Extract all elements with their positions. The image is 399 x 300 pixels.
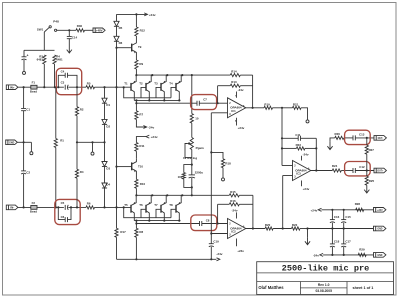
resistor R17 <box>115 207 126 259</box>
transistor T5 <box>124 195 136 220</box>
junction bias line at IN+ line <box>115 86 117 88</box>
junction R23 left <box>281 147 283 149</box>
junction divider mid <box>282 227 284 229</box>
junction C6 loop left <box>57 206 59 208</box>
capacitor C19 <box>209 234 219 260</box>
wire IC3 plus down to divider <box>282 176 284 229</box>
junction T7 collector lower <box>163 220 165 222</box>
capacitor C17 <box>341 229 351 255</box>
svg-text:R13: R13 <box>231 80 237 84</box>
resistor R20 <box>265 223 292 230</box>
svg-text:+: + <box>27 53 29 57</box>
capacitor C13 <box>353 133 374 141</box>
junction R3 to IN+ line <box>43 86 45 88</box>
resistor R16 <box>218 199 253 206</box>
svg-text:C5: C5 <box>61 201 65 205</box>
svg-text:Bead: Bead <box>30 210 37 214</box>
junction IC2 output <box>252 227 254 229</box>
capacitor C20 phantom filter <box>22 50 29 71</box>
wire IC2 plus input <box>211 233 227 235</box>
junction C15 top <box>343 209 345 211</box>
+24v psu rail <box>322 209 374 211</box>
junction diode chain mid <box>103 141 105 143</box>
svg-text:2500-like mic pre: 2500-like mic pre <box>282 263 370 273</box>
svg-text:IC1: IC1 <box>231 109 236 113</box>
junction R23 right <box>315 147 317 149</box>
svg-text:D2: D2 <box>106 124 110 128</box>
wire IC2 output <box>246 228 265 230</box>
junction R8 at rail <box>135 258 137 260</box>
wire collector takeoff upper <box>135 100 137 103</box>
resistor R9 <box>135 60 144 75</box>
-24v arrow tag psu <box>313 253 323 257</box>
svg-text:100: 100 <box>178 175 183 179</box>
junction collector takeoff upper <box>135 99 137 101</box>
capacitor C15 <box>341 210 351 229</box>
+24v arrow tag psu <box>311 208 322 212</box>
junction R19 R21 node <box>281 107 283 109</box>
svg-text:R25: R25 <box>369 179 375 183</box>
capacitor C5 <box>61 201 69 210</box>
svg-text:R6: R6 <box>87 201 91 205</box>
svg-text:C15: C15 <box>345 215 351 219</box>
junction T6 collector lower <box>148 220 150 222</box>
wire IN+ line <box>18 86 64 88</box>
junction 100R loop bottom <box>191 186 193 188</box>
wire R16 to minus node <box>217 204 219 223</box>
junction R4b at IN- line <box>76 206 78 208</box>
terminal bias test point <box>91 152 94 155</box>
junction base bus left upper <box>123 86 125 88</box>
highlight box C12 <box>345 162 371 176</box>
feedback vertical IC1 <box>252 75 254 108</box>
svg-text:R18: R18 <box>225 162 231 166</box>
resistor R15 <box>229 190 253 197</box>
base bus upper <box>124 87 171 97</box>
op-amp IC2 <box>228 208 246 252</box>
junction T9 base <box>115 47 117 49</box>
junction C6 loop right <box>70 206 72 208</box>
collector rail lower <box>134 220 180 222</box>
junction R13 at minus <box>217 102 219 104</box>
junction C4 loop right / R2 top <box>76 86 78 88</box>
svg-text:R2: R2 <box>80 108 84 112</box>
emitter rail lower <box>136 194 229 196</box>
svg-text:D6: D6 <box>119 41 123 45</box>
resistor R4b bias lower <box>75 142 83 207</box>
title block <box>257 262 394 295</box>
svg-text:C3: C3 <box>61 80 65 84</box>
transistor T9 <box>117 36 142 60</box>
capacitor C14 <box>67 30 78 39</box>
tag +24V supply <box>374 208 386 213</box>
wire IC3 minus input <box>282 165 293 167</box>
svg-text:IC3: IC3 <box>296 172 301 176</box>
junction T8 collector lower <box>178 220 180 222</box>
junction R27 top <box>366 137 368 139</box>
phantom bus bar <box>24 49 55 51</box>
svg-text:-24v: -24v <box>238 88 244 92</box>
junction C17 bottom <box>343 254 345 256</box>
junction ground stub <box>306 227 308 229</box>
emitter rail upper <box>136 74 230 76</box>
svg-text:+24v: +24v <box>237 249 244 253</box>
tag +48V <box>93 28 105 33</box>
svg-text:R24: R24 <box>332 164 338 168</box>
transistor T8 <box>169 195 181 220</box>
svg-text:sheet 1 of 1: sheet 1 of 1 <box>353 286 374 290</box>
diode D5 <box>114 14 123 36</box>
junction IC2 plus C19 <box>210 232 212 234</box>
wire IN- line <box>18 206 64 208</box>
svg-text:R15: R15 <box>230 190 236 194</box>
svg-text:R16: R16 <box>230 199 236 203</box>
wire collector takeoff lower <box>135 221 137 224</box>
junction R8 top <box>135 222 137 224</box>
junction T3 emitter <box>166 74 168 76</box>
highlight box C3 C4 <box>56 68 81 94</box>
signal line to C7 <box>136 102 197 104</box>
transistor T6 <box>139 195 151 220</box>
capacitor C6 bypass loop <box>58 207 71 222</box>
base stub T2 <box>141 87 146 97</box>
junction T2 emitter <box>151 74 153 76</box>
svg-text:+48V: +48V <box>96 28 103 32</box>
svg-text:D4: D4 <box>106 182 110 186</box>
svg-text:+24v: +24v <box>151 135 158 139</box>
resistor R29 <box>358 248 366 257</box>
capacitor C8 <box>200 218 210 226</box>
junction T6 emitter <box>151 194 153 196</box>
wire IC2 output line <box>264 228 266 230</box>
junction gain tap upper <box>191 74 193 76</box>
svg-text:-24v: -24v <box>313 253 319 257</box>
junction R10 T5 emitter <box>135 194 137 196</box>
resistor R19 <box>264 102 293 109</box>
junction R18 tap <box>210 151 212 153</box>
junction bias mid left <box>76 141 78 143</box>
resistor R23 <box>282 143 316 150</box>
svg-text:R23: R23 <box>296 143 302 147</box>
resistor R7 <box>135 103 146 127</box>
svg-text:Rev 1.0: Rev 1.0 <box>318 283 330 287</box>
wire divider to psu gnd rail <box>308 228 374 230</box>
tag GND low <box>374 253 386 258</box>
-24v arrow tag at R7 <box>143 125 154 129</box>
svg-text:P48: P48 <box>53 19 59 23</box>
svg-text:T9: T9 <box>138 45 142 49</box>
resistor R13 <box>218 80 253 87</box>
wire C8 to IC2 minus <box>202 223 228 225</box>
tag GND <box>6 140 18 145</box>
wire R6 to T5 base <box>95 206 132 208</box>
wire C3 to R5 <box>68 86 86 88</box>
svg-text:T5: T5 <box>124 203 128 207</box>
resistor R28 <box>355 202 364 211</box>
junction R4 to IN+ line <box>54 86 56 88</box>
svg-text:C6: C6 <box>61 215 65 219</box>
resistor R21 <box>293 102 308 119</box>
junction C16 bottom <box>331 227 333 229</box>
diode D3 <box>102 142 111 183</box>
resistor R1 input load <box>54 87 64 207</box>
resistor R27 <box>365 138 374 171</box>
svg-text:C14: C14 <box>72 35 78 39</box>
terminal below R18 <box>222 178 225 181</box>
svg-text:R17: R17 <box>120 230 126 234</box>
svg-text:T1: T1 <box>124 82 128 86</box>
ground below C14 <box>67 39 72 53</box>
resistor R30 <box>76 24 85 32</box>
highlight box C8 <box>191 215 217 231</box>
wire bias stub to terminal <box>92 142 94 152</box>
capacitor C18 <box>330 229 340 255</box>
svg-text:R9: R9 <box>139 62 143 66</box>
junction R7 top <box>135 102 137 104</box>
junction C15 bottom <box>343 227 345 229</box>
svg-text:C18: C18 <box>334 239 340 243</box>
capacitor C2 <box>21 142 30 207</box>
svg-text:F1: F1 <box>32 81 36 85</box>
svg-text:OUT-: OUT- <box>378 138 384 140</box>
wire IC3 plus input <box>283 175 293 177</box>
svg-text:R21: R21 <box>293 102 299 106</box>
feedback vertical IC2 <box>252 195 254 228</box>
svg-text:R11: R11 <box>139 144 145 148</box>
junction R27 bottom <box>366 169 368 171</box>
svg-text:6481: 6481 <box>37 58 44 62</box>
svg-text:C17: C17 <box>345 239 351 243</box>
op-amp IC3 <box>293 152 311 191</box>
svg-text:R26: R26 <box>335 132 341 136</box>
-24v psu rail <box>323 254 373 256</box>
transistor T10 <box>117 159 144 180</box>
ground below R25 <box>364 186 369 193</box>
svg-text:D3: D3 <box>106 167 110 171</box>
svg-text:R28: R28 <box>355 202 361 206</box>
resistor R12 <box>135 14 145 36</box>
junction collector takeoff lower <box>135 220 137 222</box>
highlight box C7 <box>191 95 217 110</box>
junction IC3 output <box>315 169 317 171</box>
junction T9 collector at rail <box>135 13 137 15</box>
svg-text:IN-: IN- <box>10 206 14 210</box>
svg-text:+24v: +24v <box>311 209 318 213</box>
svg-text:GND: GND <box>377 229 382 231</box>
svg-text:GND: GND <box>9 142 14 144</box>
junction C18 bottom <box>331 254 333 256</box>
junction C4 loop left <box>57 86 59 88</box>
svg-text:T8: T8 <box>169 203 173 207</box>
junction T3 collector <box>163 99 165 101</box>
capacitor C7 <box>197 98 207 106</box>
ground at R26 <box>327 142 332 150</box>
svg-text:C11: C11 <box>295 133 301 137</box>
junction T4 collector <box>178 99 180 101</box>
junction C1 top <box>23 86 25 88</box>
-24v distribution rail <box>117 258 217 260</box>
junction diode chain top <box>103 86 105 88</box>
junction C14 top <box>68 29 70 31</box>
svg-text:T3: T3 <box>154 82 158 86</box>
svg-text:C13: C13 <box>359 133 365 137</box>
capacitor 2200u <box>189 165 204 196</box>
ferrite bead F1 <box>30 81 37 94</box>
svg-text:R10: R10 <box>140 182 146 186</box>
svg-text:C4: C4 <box>61 70 65 74</box>
svg-text:T4: T4 <box>169 82 173 86</box>
diode D6 <box>114 36 123 47</box>
switch SW1 <box>37 19 59 32</box>
+24v arrow tag top <box>144 13 156 17</box>
svg-text:C16: C16 <box>334 215 340 219</box>
junction GND node <box>23 141 25 143</box>
svg-text:R5: R5 <box>87 81 91 85</box>
svg-text:R12: R12 <box>140 29 146 33</box>
wire R13 to minus node <box>217 86 219 104</box>
resistor 10 ohm <box>190 114 199 138</box>
base stub T6 <box>141 209 146 217</box>
base stub T8 <box>171 209 176 217</box>
svg-text:SW1: SW1 <box>37 27 44 31</box>
svg-text:+24v: +24v <box>149 13 156 17</box>
resistor R18 <box>211 152 231 177</box>
svg-text:-24v: -24v <box>148 125 154 129</box>
collector rail upper <box>134 99 180 101</box>
svg-text:GND: GND <box>377 255 382 257</box>
svg-text:03.08.2005: 03.08.2005 <box>315 289 332 293</box>
svg-text:R7: R7 <box>139 112 143 116</box>
svg-text:R20: R20 <box>265 223 271 227</box>
svg-text:T6: T6 <box>139 203 143 207</box>
svg-text:Bead: Bead <box>30 89 37 93</box>
svg-text:T10: T10 <box>138 165 143 169</box>
svg-text:-24v: -24v <box>303 152 309 156</box>
capacitor C11 <box>282 133 316 141</box>
svg-text:C7: C7 <box>203 98 207 102</box>
resistor R8 <box>135 224 144 260</box>
capacitor C16 <box>330 210 340 229</box>
diode D4 <box>102 182 111 207</box>
svg-text:-24v: -24v <box>232 208 238 212</box>
svg-text:Pgain: Pgain <box>196 146 204 150</box>
terminal chassis <box>30 152 33 155</box>
resistor R3 6481 <box>37 54 46 87</box>
feedback left vertical IC3 <box>281 108 283 166</box>
svg-text:Olaf Matthes: Olaf Matthes <box>258 285 284 290</box>
svg-text:C1: C1 <box>26 108 30 112</box>
svg-text:1k rev. log: 1k rev. log <box>183 156 197 160</box>
bias vertical IC1 plus to IC2 plus <box>210 113 212 234</box>
svg-text:T2: T2 <box>139 82 143 86</box>
junction T10 base tap <box>115 166 117 168</box>
wire GND tag to C1 line <box>17 141 31 143</box>
resistor R6 <box>86 201 95 209</box>
wire C7 to IC1 minus <box>199 102 227 104</box>
junction C11 left <box>281 137 283 139</box>
svg-text:+24v: +24v <box>238 126 245 130</box>
+24v rail top <box>117 13 148 15</box>
bias vertical line <box>116 48 118 208</box>
resistor R14 <box>230 70 252 77</box>
svg-text:10: 10 <box>195 116 199 120</box>
tag OUT- <box>374 136 386 141</box>
diode D2 <box>102 119 111 142</box>
tag GND mid <box>374 226 386 231</box>
svg-text:+24v: +24v <box>303 187 310 191</box>
resistor R24 <box>332 164 353 172</box>
svg-text:R19: R19 <box>264 102 270 106</box>
+24v arrow tag at R11 <box>146 135 158 139</box>
svg-text:6481: 6481 <box>56 58 63 62</box>
svg-text:R29: R29 <box>359 248 365 252</box>
transistor T2 <box>139 75 151 100</box>
resistor R4 6481 <box>53 54 63 87</box>
svg-text:R30: R30 <box>77 24 83 28</box>
wire bias mid node <box>77 141 105 143</box>
svg-text:T7: T7 <box>154 203 158 207</box>
tag IN- <box>6 205 18 210</box>
resistor R22 <box>292 223 308 230</box>
wire collector tap to gain chain <box>191 75 193 114</box>
resistor R26 <box>330 132 353 142</box>
wire C5 to R6 <box>68 206 86 208</box>
transistor T1 <box>124 75 136 100</box>
capacitor C4 bypass loop <box>58 70 77 88</box>
wire SW1 to phantom bus <box>43 32 45 50</box>
terminal below phantom cap <box>23 71 26 74</box>
transistor T4 <box>169 75 181 100</box>
svg-text:F2: F2 <box>32 201 36 205</box>
capacitor C1 <box>21 87 30 142</box>
resistor R10 <box>135 179 146 195</box>
potentiometer Pgain <box>183 138 204 165</box>
capacitor C3 <box>61 80 69 89</box>
junction C2 at IN- line <box>23 206 25 208</box>
wire SW1 to R30 <box>57 29 76 31</box>
svg-text:D1: D1 <box>106 103 110 107</box>
ferrite bead F2 <box>30 201 37 214</box>
resistor 100R loop <box>178 165 192 188</box>
resistor R25 <box>365 171 374 187</box>
svg-text:OUT+: OUT+ <box>377 171 384 173</box>
junction R1 at IN- line <box>55 206 57 208</box>
svg-text:R1: R1 <box>60 139 64 143</box>
wire IC1 plus input <box>211 112 227 114</box>
resistor R11 <box>135 137 146 159</box>
base stub T7 <box>156 209 161 217</box>
junction R9 T1 emitter <box>135 74 137 76</box>
svg-text:IN+: IN+ <box>10 85 15 89</box>
junction base bus left lower <box>123 206 125 208</box>
wire IC3 output <box>311 170 333 172</box>
junction 100R loop top <box>191 164 193 166</box>
svg-text:D5: D5 <box>119 26 123 30</box>
svg-text:-24v: -24v <box>216 252 222 256</box>
svg-text:IC2: IC2 <box>231 230 236 234</box>
svg-text:2200u: 2200u <box>195 170 203 174</box>
signal line to C8 <box>136 223 199 225</box>
wire chassis stub <box>30 142 32 151</box>
svg-text:C8: C8 <box>206 218 210 222</box>
svg-text:C2: C2 <box>26 170 30 174</box>
svg-text:C19: C19 <box>213 240 219 244</box>
junction R16 at minus <box>217 222 219 224</box>
highlight box C13 <box>345 130 371 144</box>
highlight box C5 C6 <box>55 199 80 224</box>
svg-text:R8: R8 <box>139 230 143 234</box>
junction diode chain bottom <box>103 206 105 208</box>
